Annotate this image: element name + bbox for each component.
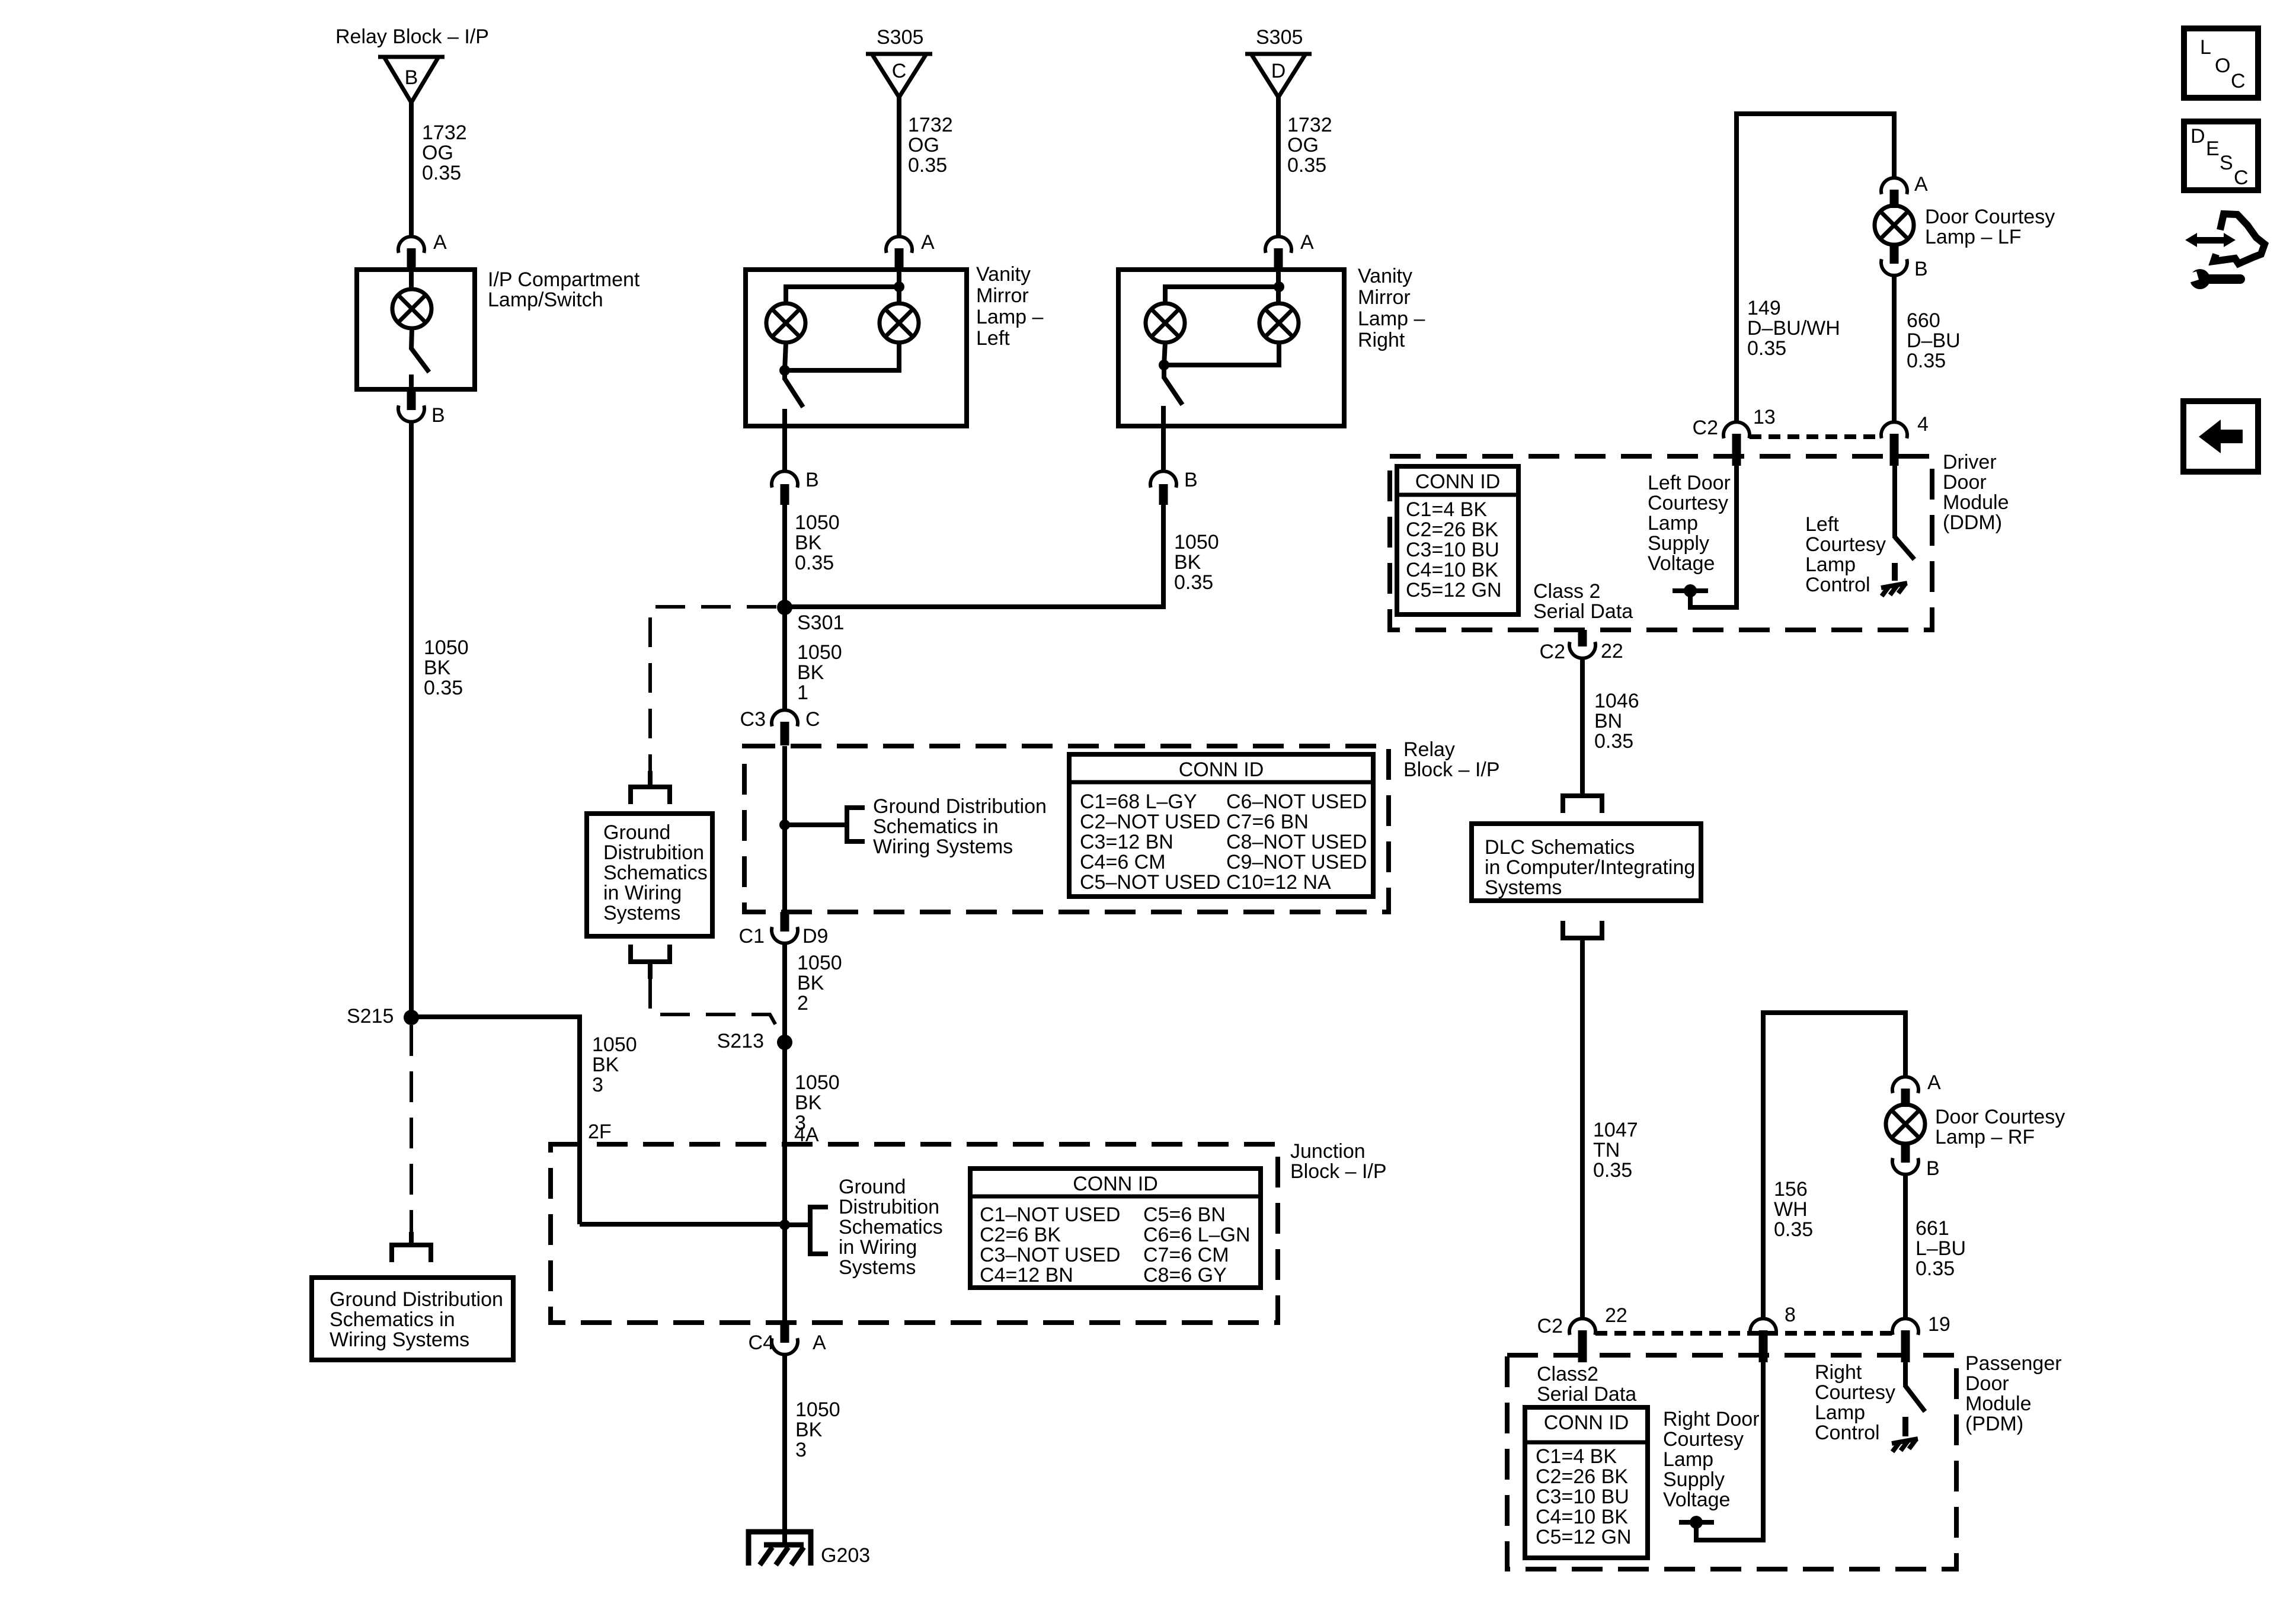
wire 1050 BK 3 (C4 to ground G203) [782,1355,787,1545]
svg-text:BK: BK [795,532,822,554]
svg-text:1: 1 [797,681,808,704]
svg-text:Lamp: Lamp [1663,1448,1713,1471]
svg-text:C4=6 CM: C4=6 CM [1080,851,1166,873]
Driver Door Module dashed box [1390,456,1932,630]
svg-text:1050: 1050 [797,641,842,664]
svg-text:Courtesy: Courtesy [1815,1381,1895,1404]
svg-text:8: 8 [1785,1304,1796,1326]
svg-text:2: 2 [797,992,808,1014]
svg-text:C: C [2234,167,2249,189]
wire 1047 TN (DLC to PDM C2-22) [1580,963,1585,1320]
bracket (ground distribution schematics note) [847,808,865,841]
svg-text:D: D [2191,125,2205,148]
lamp (vanity right, left bulb) [1146,303,1185,343]
svg-text:S301: S301 [797,612,844,634]
svg-text:C1=4 BK: C1=4 BK [1536,1445,1617,1468]
svg-text:0.35: 0.35 [1287,154,1326,177]
svg-text:Vanity: Vanity [976,263,1031,286]
svg-text:Systems: Systems [839,1256,916,1279]
svg-text:C9–NOT USED: C9–NOT USED [1226,851,1367,873]
svg-text:C5=12 GN: C5=12 GN [1406,579,1502,601]
svg-text:Supply: Supply [1663,1468,1725,1491]
svg-text:Ground: Ground [839,1176,906,1198]
svg-text:3: 3 [795,1439,807,1461]
svg-text:0.35: 0.35 [1593,1159,1632,1182]
svg-text:Serial Data: Serial Data [1537,1383,1636,1406]
svg-text:0.35: 0.35 [908,154,947,177]
wire 1050 BK 3 (S215 to junction block pin 2F) [411,1017,580,1224]
wire (pin A into lamp node) [1276,270,1281,303]
lamp (vanity left, left bulb) [766,303,805,343]
svg-text:(DDM): (DDM) [1943,511,2002,534]
Vanity Mirror Lamp - Right box [1118,270,1344,426]
supply voltage terminal [1673,588,1708,593]
svg-text:1050: 1050 [797,952,842,974]
icon vehicle diagnostics (car with arrow and wrench) [2185,214,2265,289]
svg-text:Passenger: Passenger [1965,1352,2062,1375]
connector A (I/P Compartment Lamp/Switch pin A) [398,236,424,270]
junction node (vanity right bottom) [1159,360,1169,370]
svg-text:C7=6 CM: C7=6 CM [1143,1244,1229,1266]
svg-text:Ground: Ground [603,821,670,844]
svg-text:0.35: 0.35 [1174,571,1213,594]
svg-text:L–BU: L–BU [1916,1237,1966,1260]
svg-text:S: S [2220,152,2233,174]
svg-text:Serial Data: Serial Data [1533,600,1633,623]
svg-text:1050: 1050 [795,1398,840,1421]
svg-text:(PDM): (PDM) [1965,1413,2023,1435]
connector pin 19 (into PDM) [1892,1318,1918,1362]
svg-text:S213: S213 [717,1030,764,1052]
wire (2F feed inside junction block) [580,1222,785,1227]
switch (vanity mirror left) [782,370,787,380]
svg-text:3: 3 [592,1074,603,1096]
DLC Schematics reference box [1472,824,1701,901]
svg-text:Voltage: Voltage [1648,552,1715,575]
svg-text:1050: 1050 [795,511,840,534]
connector B (I/P Compartment Lamp/Switch pin B) [398,389,424,422]
svg-text:Lamp – RF: Lamp – RF [1935,1126,2035,1148]
Relay Block - I/P dashed box [744,746,1389,912]
svg-text:Lamp: Lamp [1648,512,1698,534]
off-page bracket (to ground distribution schematics) [409,1232,414,1245]
icon DESC button [2184,121,2258,190]
CONN ID table (PDM) [1525,1407,1648,1558]
svg-text:Lamp –: Lamp – [976,306,1043,328]
switch (right courtesy lamp control) [1905,1386,1925,1411]
svg-text:Schematics: Schematics [603,862,708,884]
lamp (vanity left, right bulb) [880,303,919,343]
svg-text:A: A [1300,231,1314,254]
svg-text:Wiring Systems: Wiring Systems [873,836,1013,858]
svg-text:BK: BK [797,972,824,994]
svg-text:0.35: 0.35 [1907,350,1946,372]
wire 1732 OG (triangle C to connector A) [897,97,901,236]
wire (pin 19 to switch) [1903,1362,1908,1387]
connector C2 pin 13 (into DDM) [1723,422,1750,466]
CONN ID table (Junction Block) [970,1169,1261,1288]
svg-text:BK: BK [797,661,824,684]
svg-text:Vanity: Vanity [1358,265,1412,287]
svg-text:C2: C2 [1537,1315,1563,1337]
svg-text:1050: 1050 [424,636,469,659]
bracket (ground distrubition schematics note) [810,1207,828,1254]
switch (left courtesy lamp control) [1895,537,1914,559]
svg-text:Systems: Systems [1485,876,1562,899]
connector B (Door Courtesy Lamp - LF pin B) [1881,244,1907,276]
connector triangle C (S305) [866,54,932,97]
switch contact wire [409,375,414,389]
connector A (Door Courtesy Lamp - LF pin A) [1881,178,1907,208]
wire (pin 8 to supply voltage node) [1696,1362,1763,1540]
switch contact wire [1161,406,1166,426]
svg-text:OG: OG [1287,134,1319,156]
off-page bracket (above DLC box) [1563,796,1602,813]
junction node (vanity left bottom) [779,365,790,376]
svg-text:Door Courtesy: Door Courtesy [1925,206,2055,228]
svg-text:Left Door: Left Door [1648,472,1731,494]
svg-text:C2=26 BK: C2=26 BK [1406,518,1498,541]
svg-text:0.35: 0.35 [1594,730,1633,753]
svg-text:156: 156 [1774,1178,1808,1201]
switch (vanity mirror right) [1162,365,1166,379]
svg-text:1050: 1050 [592,1033,637,1056]
svg-text:BN: BN [1594,710,1622,732]
svg-text:1732: 1732 [422,121,467,144]
svg-text:Lamp/Switch: Lamp/Switch [488,289,603,311]
svg-text:Distrubition: Distrubition [839,1196,939,1218]
svg-text:CONN ID: CONN ID [1415,470,1501,493]
svg-text:OG: OG [422,142,453,164]
dashed wire (ground box to splice S213) [650,979,784,1039]
svg-text:WH: WH [1774,1198,1808,1221]
svg-text:Door: Door [1943,471,1987,494]
svg-text:C2=6 BK: C2=6 BK [980,1224,1061,1246]
svg-text:O: O [2215,55,2230,77]
svg-text:Right: Right [1815,1361,1862,1384]
svg-text:C6–NOT USED: C6–NOT USED [1226,790,1367,813]
svg-text:C10=12 NA: C10=12 NA [1226,871,1331,894]
svg-text:A: A [433,231,447,254]
svg-text:BK: BK [795,1092,822,1114]
svg-text:C4=12 BN: C4=12 BN [980,1264,1073,1286]
svg-text:C8–NOT USED: C8–NOT USED [1226,831,1367,853]
junction node (junction block ground tap) [779,1219,790,1230]
wire 660 D-BU (lamp B to DDM pin 4) [1892,276,1897,421]
svg-text:D9: D9 [802,925,828,948]
svg-text:0.35: 0.35 [795,552,834,574]
junction node (vanity right top) [1274,281,1284,292]
lamp Door Courtesy Lamp - RF [1886,1105,1925,1144]
svg-text:1050: 1050 [1174,531,1219,553]
wire 1732 OG (triangle B to connector A) [409,103,414,236]
svg-text:CONN ID: CONN ID [1544,1411,1629,1434]
svg-text:C3=12 BN: C3=12 BN [1080,831,1173,853]
svg-text:E: E [2206,137,2220,160]
svg-text:CONN ID: CONN ID [1073,1173,1158,1195]
connector B (Vanity Mirror Lamp - Left pin B) [772,471,798,505]
connector A (Vanity Mirror Lamp - Right pin A) [1265,236,1291,270]
lamp (I/P compartment) [392,289,431,328]
svg-text:149: 149 [1747,297,1781,319]
wire (box to connector B) [1161,426,1166,471]
wire (top bus to left bulb) [1165,287,1279,303]
icon back arrow button [2183,401,2258,472]
svg-text:C5=6 BN: C5=6 BN [1143,1204,1226,1226]
wire (lamp to switch pivot) [411,328,412,350]
svg-text:BK: BK [424,657,451,679]
svg-text:660: 660 [1907,309,1940,332]
wire 156 WH (supply loop, PDM pin 8 up and over to lamp) [1763,1013,1905,1320]
Ground Distribution Schematics in Wiring Systems reference box (left) [312,1278,513,1360]
svg-text:1732: 1732 [908,114,953,136]
svg-text:Right: Right [1358,329,1405,351]
Passenger Door Module dashed box [1507,1355,1956,1569]
dashed wire (S301 to ground distribution reference) [650,607,776,771]
svg-text:Driver: Driver [1943,451,1997,473]
svg-text:Distrubition: Distrubition [603,841,704,864]
switch contact stub [1892,563,1898,581]
svg-text:B: B [405,66,418,89]
svg-text:Block – I/P: Block – I/P [1290,1160,1387,1183]
svg-text:Class2: Class2 [1537,1363,1598,1385]
wire (node to bracket) [785,1222,810,1227]
svg-text:C2–NOT USED: C2–NOT USED [1080,811,1220,833]
svg-text:Control: Control [1815,1422,1880,1444]
svg-text:Schematics in: Schematics in [873,815,999,838]
wire (pin A into lamp node) [897,270,901,303]
svg-text:0.35: 0.35 [424,677,463,699]
svg-text:S215: S215 [347,1005,394,1028]
svg-text:BK: BK [592,1054,619,1076]
svg-text:Right Door: Right Door [1663,1408,1760,1430]
svg-text:B: B [1926,1157,1940,1180]
svg-text:Junction: Junction [1290,1140,1366,1163]
svg-text:A: A [813,1331,826,1354]
svg-text:Class 2: Class 2 [1533,580,1600,603]
svg-text:C4=10 BK: C4=10 BK [1406,559,1498,581]
svg-text:C: C [2231,70,2246,92]
I/P Compartment Lamp/Switch box [357,270,475,389]
svg-text:13: 13 [1753,406,1776,428]
svg-text:C1=68 L–GY: C1=68 L–GY [1080,790,1197,813]
connector pin 8 (into PDM) [1750,1318,1776,1362]
switch contact stub [1902,1417,1908,1436]
wire (pin 4 to switch) [1892,466,1897,538]
wire 1046 BN (C2-22 to DLC reference) [1580,658,1585,793]
svg-text:B: B [1914,258,1928,280]
svg-text:C3=10 BU: C3=10 BU [1406,539,1499,561]
connector B (Vanity Mirror Lamp - Right pin B) [1150,471,1176,505]
svg-text:Left: Left [1805,513,1839,536]
lamp (vanity right, right bulb) [1259,303,1299,343]
svg-text:Control: Control [1805,574,1870,596]
wire 661 L-BU (lamp B to PDM pin 19) [1903,1174,1908,1320]
svg-text:S305: S305 [1256,26,1303,49]
wire (through junction block) [782,1144,787,1323]
svg-text:Systems: Systems [603,902,680,924]
svg-text:BK: BK [1174,551,1201,574]
wire 1050 BK 1 (S301 to connector C3) [782,607,787,710]
wire 1050 BK (pin B to splice S301) [785,505,1163,607]
svg-text:Lamp –: Lamp – [1358,308,1425,330]
CONN ID table (Relay Block) [1069,754,1373,897]
svg-text:Lamp: Lamp [1805,553,1856,576]
svg-text:Mirror: Mirror [976,284,1029,307]
svg-text:C7=6 BN: C7=6 BN [1226,811,1309,833]
svg-text:C1: C1 [739,925,765,948]
svg-text:C2: C2 [1540,641,1565,663]
svg-text:0.35: 0.35 [1747,337,1786,360]
icon LOC button [2184,28,2258,98]
svg-text:C5–NOT USED: C5–NOT USED [1080,871,1220,894]
svg-text:1047: 1047 [1593,1119,1638,1141]
wire 1050 BK 3 (S213 to junction block pin 4A) [782,1042,787,1144]
svg-text:661: 661 [1916,1217,1949,1240]
connector triangle D (S305) [1245,54,1312,97]
svg-text:C8=6 GY: C8=6 GY [1143,1264,1227,1286]
ground (DDM internal) [1881,583,1907,588]
svg-text:TN: TN [1593,1139,1620,1161]
svg-text:I/P Compartment: I/P Compartment [488,268,640,291]
svg-text:Relay: Relay [1403,738,1455,761]
svg-text:Door: Door [1965,1372,2009,1395]
svg-text:22: 22 [1605,1304,1627,1327]
lamp Door Courtesy Lamp - LF [1875,206,1914,245]
svg-text:Door Courtesy: Door Courtesy [1935,1106,2065,1128]
svg-text:Lamp: Lamp [1815,1401,1865,1424]
svg-text:Left: Left [976,327,1010,350]
splice S301 [777,600,792,615]
svg-text:2F: 2F [588,1121,612,1143]
svg-text:C2: C2 [1693,417,1718,439]
svg-text:C: C [892,60,907,82]
off-page bracket (above middle ground box) [648,771,653,786]
svg-text:19: 19 [1928,1313,1950,1336]
svg-text:Ground Distribution: Ground Distribution [330,1288,503,1311]
wire (pin 13 to supply voltage node) [1690,466,1737,607]
off-page bracket (below middle ground box) [631,945,670,962]
svg-text:1046: 1046 [1594,690,1639,712]
svg-text:S305: S305 [877,26,923,49]
svg-text:Courtesy: Courtesy [1663,1428,1744,1451]
svg-text:D–BU/WH: D–BU/WH [1747,317,1840,340]
connector C2 pin 22 (out of DDM) [1569,630,1595,658]
svg-text:in Computer/Integrating: in Computer/Integrating [1485,856,1695,879]
svg-text:C4=10 BK: C4=10 BK [1536,1506,1628,1528]
Vanity Mirror Lamp - Left box [746,270,967,426]
svg-text:B: B [431,404,445,427]
wire (pin A to lamp) [409,270,414,290]
switch (I/P compartment) [411,348,429,372]
svg-text:OG: OG [908,134,939,156]
svg-text:D–BU: D–BU [1907,329,1961,352]
junction node (relay block ground tap) [779,820,790,830]
connector bus (DDM C2 short dash) [1750,434,1880,439]
wire 1050 BK (pin B to splice S215) [409,422,414,1017]
CONN ID table (DDM) [1397,466,1518,614]
svg-text:B: B [1184,469,1198,491]
svg-text:Courtesy: Courtesy [1648,492,1728,514]
wire 1050 BK (pin B to splice S301) [782,505,787,607]
ground G203 symbol [749,1532,811,1566]
connector C1 pin D9 (out of Relay Block) [772,912,798,943]
svg-text:Ground Distribution: Ground Distribution [873,795,1047,818]
connector C3 pin C (into Relay Block) [772,710,798,745]
svg-text:in Wiring: in Wiring [603,882,682,904]
ground (PDM internal) [1892,1439,1918,1443]
svg-text:C3–NOT USED: C3–NOT USED [980,1244,1120,1266]
svg-text:Voltage: Voltage [1663,1489,1730,1511]
svg-text:0.35: 0.35 [1916,1257,1955,1280]
svg-text:BK: BK [795,1419,823,1441]
dashed wire (S215 to ground distribution reference) [410,1025,413,1232]
wire 149 D-BU/WH (supply loop, DDM pin 13 up and over to lamp) [1737,114,1894,421]
wire (through relay block) [782,746,787,912]
svg-text:CONN ID: CONN ID [1179,758,1264,781]
svg-text:C1–NOT USED: C1–NOT USED [980,1204,1120,1226]
wire 1050 BK 2 (C1 to splice S213) [782,943,787,1042]
connector A (Door Courtesy Lamp - RF pin A) [1892,1077,1918,1107]
splice S215 [404,1010,419,1025]
svg-text:DLC Schematics: DLC Schematics [1485,836,1635,859]
connector C2 pin 22 (into PDM) [1569,1318,1595,1362]
svg-text:4: 4 [1917,413,1929,436]
svg-text:22: 22 [1601,640,1623,662]
connector C4 pin A (out of Junction Block) [772,1323,798,1355]
connector A (Vanity Mirror Lamp - Left pin A) [886,236,912,270]
svg-text:1050: 1050 [795,1071,840,1094]
supply voltage terminal [1679,1520,1714,1525]
svg-text:C2=26 BK: C2=26 BK [1536,1465,1628,1488]
connector pin 4 (into DDM) [1881,422,1907,466]
svg-text:Wiring Systems: Wiring Systems [330,1329,469,1351]
connector bus (PDM short dash) [1595,1331,1892,1336]
svg-text:Courtesy: Courtesy [1805,533,1886,556]
svg-text:C5=12 GN: C5=12 GN [1536,1526,1632,1548]
off-page bracket (below DLC box) [1563,921,1602,938]
wire (right bulb to switch node bus) [1164,343,1279,365]
wire (box to connector B) [782,426,787,471]
svg-text:Module: Module [1943,491,2009,514]
Ground Distrubition Schematics in Wiring Systems reference box (middle) [587,814,712,936]
svg-text:Schematics in: Schematics in [330,1308,455,1331]
svg-text:C1=4 BK: C1=4 BK [1406,498,1487,521]
wire (node to bracket) [785,822,847,827]
svg-text:1732: 1732 [1287,114,1332,136]
svg-text:Mirror: Mirror [1358,286,1411,309]
splice S213 [777,1035,792,1050]
svg-text:A: A [921,231,935,254]
svg-text:A: A [1927,1071,1941,1094]
svg-text:A: A [1914,173,1928,196]
wire (right bulb to switch node bus) [785,343,899,370]
connector triangle B (Relay Block - I/P) [378,57,445,103]
wire (left bulb to switch node) [785,343,786,370]
svg-text:Supply: Supply [1648,532,1709,555]
svg-text:Schematics: Schematics [839,1216,943,1238]
svg-text:C: C [805,708,820,731]
svg-text:D: D [1271,60,1286,82]
svg-text:L: L [2200,36,2211,59]
svg-text:C3=10 BU: C3=10 BU [1536,1486,1629,1508]
svg-text:C3: C3 [740,708,766,731]
svg-text:C4: C4 [749,1331,774,1354]
svg-text:in Wiring: in Wiring [839,1236,917,1259]
svg-text:Module: Module [1965,1393,2032,1415]
svg-text:B: B [805,469,819,491]
wire (top bus to left bulb) [786,287,899,303]
